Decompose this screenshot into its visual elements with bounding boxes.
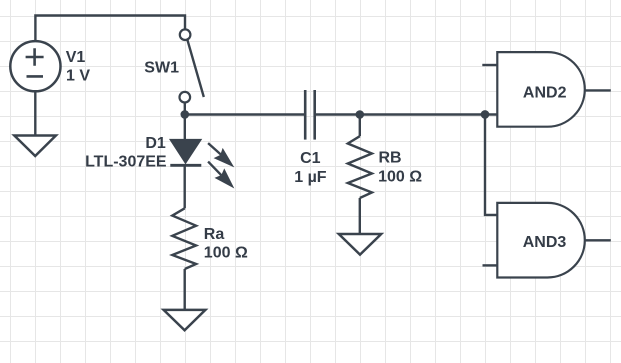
svg-text:V1: V1 xyxy=(66,49,86,66)
ground G3 xyxy=(339,234,381,255)
svg-text:100 Ω: 100 Ω xyxy=(378,168,422,185)
switch SW1 bottom terminal xyxy=(180,92,191,103)
svg-text:RB: RB xyxy=(379,150,402,167)
switch SW1 blade xyxy=(188,40,204,97)
resistor RB xyxy=(348,136,372,198)
junction node at SW1/D1 xyxy=(181,110,190,119)
diode D1 LED triangle xyxy=(171,140,201,163)
svg-text:AND3: AND3 xyxy=(523,234,567,251)
and-gate U1 AND2 body xyxy=(497,52,584,127)
svg-text:AND2: AND2 xyxy=(523,85,567,102)
wire node bus left xyxy=(185,113,304,115)
V1 minus sign xyxy=(27,75,44,78)
svg-text:100 Ω: 100 Ω xyxy=(204,245,248,262)
AND3 input pin bottom xyxy=(483,264,498,266)
svg-text:Ra: Ra xyxy=(204,226,225,243)
AND2 input pin top xyxy=(482,64,497,66)
capacitor C1 plate right xyxy=(313,90,316,140)
LED arrow 2 xyxy=(208,162,221,176)
wire V1 bottom to ground xyxy=(34,91,36,135)
junction node at C1/RB xyxy=(356,110,365,119)
V1 plus sign xyxy=(26,48,44,66)
wire SW1 to D1 xyxy=(184,103,186,140)
wire node to AND3 input xyxy=(485,115,497,215)
capacitor C1 plate left xyxy=(304,90,307,140)
junction node at AND2 input xyxy=(481,110,490,119)
ground G2 xyxy=(164,310,206,330)
AND3 output pin xyxy=(585,239,611,241)
voltage source V1 xyxy=(10,41,60,91)
svg-text:1 µF: 1 µF xyxy=(294,169,327,186)
switch SW1 top terminal xyxy=(180,29,191,40)
LED arrow 1 xyxy=(208,143,221,155)
and-gate U2 AND3 body xyxy=(497,203,585,278)
wire top bus V1 to SW1 xyxy=(35,16,185,42)
svg-text:SW1: SW1 xyxy=(144,60,179,77)
AND2 output pin xyxy=(585,89,611,91)
wire node to RB xyxy=(359,115,361,137)
ground G1 xyxy=(14,136,56,157)
wire RB to ground xyxy=(359,198,361,234)
diode D1 cathode bar xyxy=(170,164,201,167)
svg-text:LTL-307EE: LTL-307EE xyxy=(85,154,167,171)
svg-text:1 V: 1 V xyxy=(66,68,90,85)
resistor Ra xyxy=(172,208,196,269)
wire D1 to Ra xyxy=(183,165,185,208)
wire node bus right xyxy=(316,113,497,115)
wire Ra to ground xyxy=(183,269,185,310)
svg-text:D1: D1 xyxy=(145,135,166,152)
svg-text:C1: C1 xyxy=(300,150,321,167)
